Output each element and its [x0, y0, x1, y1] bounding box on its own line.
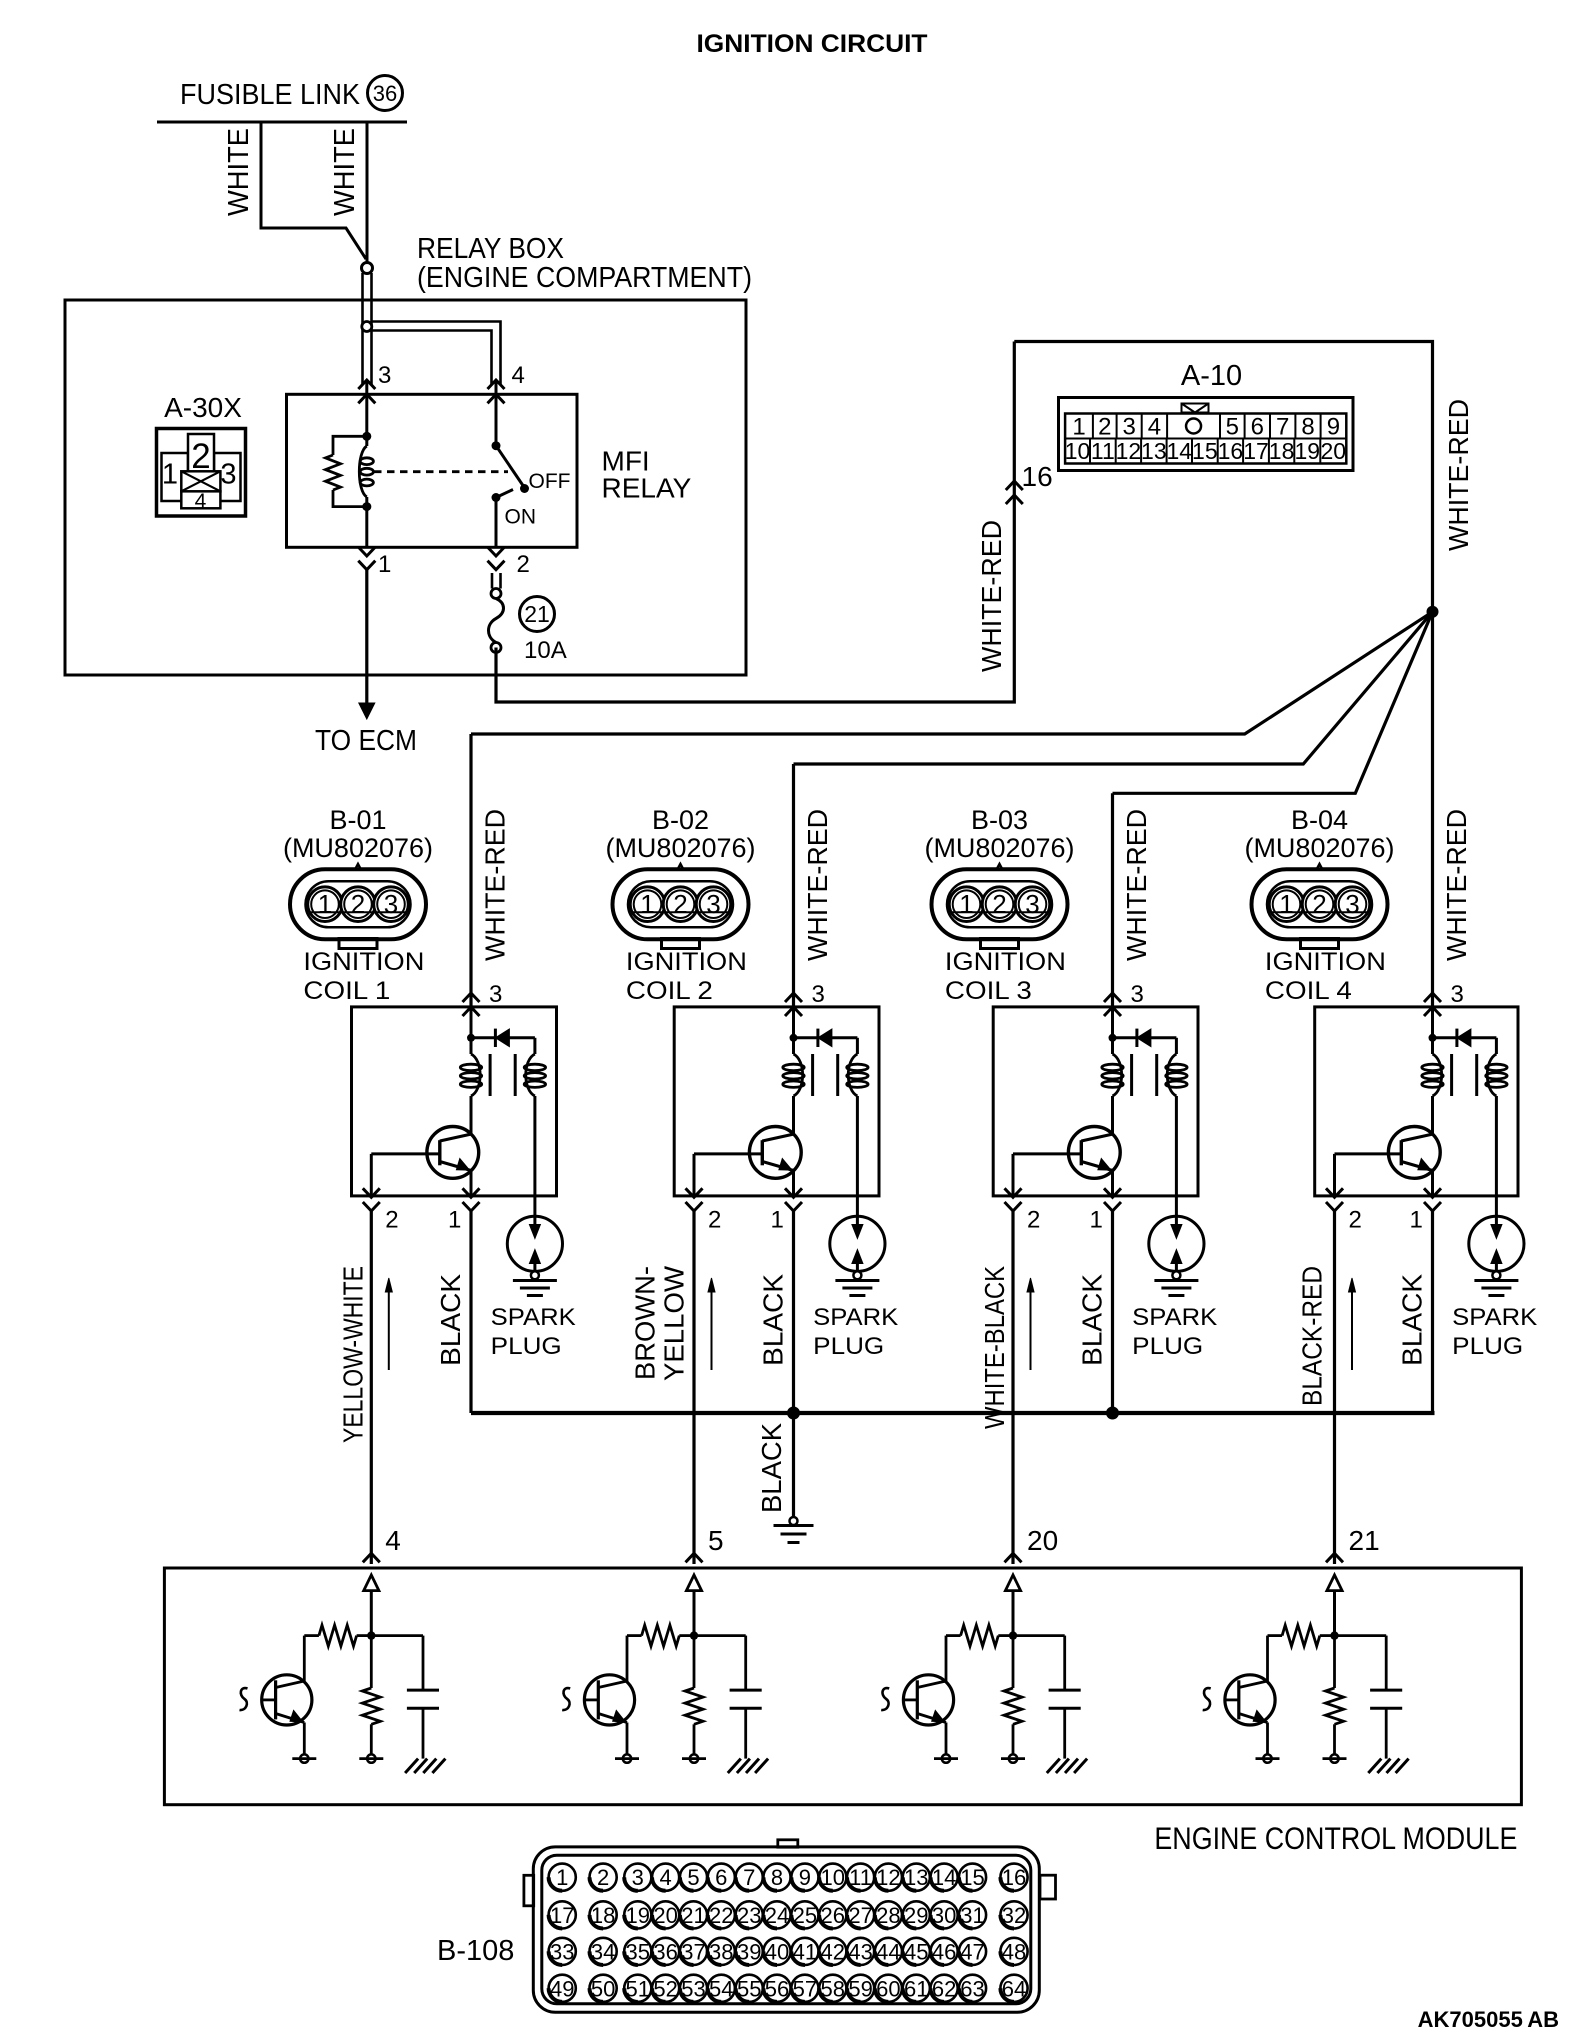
- coil 2 base wire: [694, 1152, 762, 1155]
- svg-text:B-03: B-03: [971, 805, 1028, 835]
- relay coil wire lower: [365, 497, 368, 547]
- ignition coil 3 box: [993, 1007, 1198, 1196]
- ECM driver 4 capacitor C4: [1335, 1634, 1387, 1637]
- svg-text:WHITE-RED: WHITE-RED: [1443, 399, 1474, 551]
- coil 4 secondary wire to spark plug: [1495, 1096, 1498, 1227]
- flow arrow coil 1: [388, 1284, 390, 1370]
- svg-text:22: 22: [709, 1903, 733, 1928]
- svg-text:20: 20: [1321, 438, 1347, 464]
- svg-text:2: 2: [673, 889, 687, 919]
- spark plug 3 ground: [1154, 1279, 1198, 1282]
- transistor Q2: [749, 1127, 801, 1179]
- svg-text:5: 5: [708, 1525, 724, 1556]
- ECM driver 4 emitter wire: [1266, 1723, 1269, 1755]
- connector A-30X cavity 4: [181, 491, 220, 508]
- coil 1 base wire: [371, 1152, 440, 1155]
- pin 4 arrow: [488, 380, 505, 389]
- coil 4 base wire drop: [1333, 1154, 1336, 1196]
- svg-text:14: 14: [932, 1865, 956, 1890]
- svg-text:TO ECM: TO ECM: [315, 725, 417, 757]
- svg-text:46: 46: [932, 1939, 956, 1964]
- coil 4 base wire: [1335, 1152, 1402, 1155]
- svg-text:3: 3: [378, 362, 391, 389]
- svg-text:4: 4: [195, 490, 207, 513]
- spark plug 4 ground terminal: [1492, 1271, 1500, 1279]
- svg-text:45: 45: [904, 1939, 928, 1964]
- connector B-01 pin 3: [374, 887, 409, 922]
- svg-text:4: 4: [512, 362, 525, 389]
- svg-text:56: 56: [765, 1976, 789, 2001]
- svg-text:AK705055 AB: AK705055 AB: [1418, 2007, 1559, 2032]
- svg-text:1: 1: [1279, 889, 1293, 919]
- svg-text:4: 4: [385, 1525, 401, 1556]
- coil 1 pin 2 arrow: [363, 1188, 380, 1197]
- wire WHITE left from fusible link: [261, 122, 366, 259]
- svg-text:6: 6: [1251, 414, 1264, 441]
- coil 3 pin 2 arrow: [1005, 1188, 1022, 1197]
- svg-text:11: 11: [849, 1865, 872, 1890]
- relay resistor branch bottom: [333, 490, 367, 507]
- spark plug 3: [1149, 1216, 1204, 1271]
- coil 2 secondary winding: [848, 1054, 857, 1096]
- svg-text:1: 1: [318, 889, 332, 919]
- relay switch pivot: [492, 441, 501, 450]
- svg-text:21: 21: [524, 601, 550, 627]
- ECM driver 2 transistor Q2e: [584, 1675, 634, 1725]
- svg-text:48: 48: [1002, 1939, 1026, 1964]
- ground symbol: [774, 1524, 814, 1527]
- wire coil 3 pin 1 to ground bus: [1111, 1211, 1114, 1413]
- svg-text:RELAY: RELAY: [602, 473, 692, 504]
- relay switch OFF contact: [520, 484, 529, 493]
- coil 3 primary to transistor wire: [1111, 1096, 1114, 1134]
- ECM driver 4 wire: [1333, 1591, 1336, 1636]
- svg-text:32: 32: [1002, 1903, 1026, 1928]
- ECM driver 1 resistor terminal: [367, 1754, 375, 1762]
- svg-text:A-10: A-10: [1181, 360, 1242, 392]
- coil 3 base wire: [1013, 1152, 1081, 1155]
- coil 1 emitter wire to pin 1: [470, 1169, 473, 1196]
- svg-text:52: 52: [653, 1976, 677, 2001]
- svg-text:14: 14: [1167, 438, 1193, 464]
- svg-text:B-02: B-02: [652, 805, 709, 835]
- svg-text:1: 1: [1090, 1207, 1103, 1234]
- svg-text:1: 1: [959, 889, 973, 919]
- ECM driver 3 resistor terminal: [1009, 1754, 1017, 1762]
- ground bus wire: [471, 1411, 1435, 1415]
- svg-text:(ENGINE COMPARTMENT): (ENGINE COMPARTMENT): [417, 262, 752, 294]
- ECM pin 4 arrow: [363, 1553, 380, 1562]
- svg-text:5: 5: [687, 1865, 699, 1890]
- coil 3 secondary wire to spark plug: [1175, 1096, 1178, 1227]
- ECM driver 2 input triangle: [686, 1575, 701, 1591]
- svg-text:57: 57: [793, 1976, 817, 2001]
- svg-text:BLACK: BLACK: [435, 1274, 466, 1366]
- svg-text:IGNITION: IGNITION: [1265, 948, 1386, 976]
- wire coil 4 pin 1 to ground bus: [1431, 1211, 1434, 1413]
- ECM driver 3 wire: [1012, 1591, 1015, 1636]
- svg-text:37: 37: [681, 1939, 705, 1964]
- svg-text:SPARK: SPARK: [1132, 1304, 1217, 1331]
- svg-text:10A: 10A: [524, 637, 567, 664]
- relay coil winding: [359, 446, 367, 497]
- coil 2 pin 3 arrow: [785, 993, 802, 1002]
- svg-text:27: 27: [848, 1903, 872, 1928]
- spark plug 1 ground: [513, 1279, 557, 1282]
- ECM driver 3 collector wire: [945, 1636, 948, 1681]
- svg-text:BLACK: BLACK: [1397, 1274, 1428, 1366]
- junction node white-red: [1427, 606, 1439, 618]
- ECM driver 2 pulldown resistor R2b: [693, 1636, 696, 1688]
- coil 2 base wire drop: [693, 1154, 696, 1196]
- connector B-02 tab: [662, 939, 700, 949]
- bare wire branch to pin 4: [372, 322, 501, 386]
- svg-text:(MU802076): (MU802076): [1244, 833, 1394, 863]
- coil 4 primary winding: [1433, 1054, 1442, 1096]
- coil 3 diode junction: [1109, 1034, 1117, 1042]
- ECM driver 4 resistor R4a: [1268, 1634, 1283, 1637]
- svg-text:60: 60: [876, 1976, 900, 2001]
- svg-text:8: 8: [1301, 414, 1314, 441]
- svg-text:20: 20: [653, 1903, 677, 1928]
- spark plug 1 ground terminal: [531, 1271, 539, 1279]
- ignition coil 2 box: [674, 1007, 879, 1196]
- ground terminal circle: [790, 1517, 798, 1525]
- wire junction to coil 2 feed: [794, 612, 1433, 764]
- svg-text:1: 1: [448, 1207, 461, 1234]
- svg-text:BLACK-RED: BLACK-RED: [1297, 1266, 1328, 1406]
- coil 2 pin 1 arrow: [785, 1188, 802, 1197]
- fuse top terminal: [491, 589, 501, 599]
- coil 4 internal wire from pin 3: [1431, 1007, 1434, 1054]
- pin 1 arrow: [358, 547, 375, 556]
- svg-text:16: 16: [1022, 461, 1053, 492]
- svg-text:YELLOW: YELLOW: [659, 1265, 690, 1381]
- connector B-108 right tab: [1040, 1875, 1056, 1899]
- connector B-04 pin 3: [1335, 887, 1370, 922]
- connector B-04 pin 1: [1269, 887, 1304, 922]
- svg-text:24: 24: [765, 1903, 789, 1928]
- wire coil 2 pin 1 to ground bus: [792, 1211, 795, 1413]
- relay coil bottom junction: [362, 502, 371, 511]
- ignition coil 4 box: [1315, 1007, 1518, 1196]
- svg-text:WHITE-RED: WHITE-RED: [802, 809, 833, 961]
- coil 1 diode D1: [471, 1036, 495, 1039]
- svg-text:50: 50: [591, 1976, 615, 2001]
- ECM driver 4 input triangle: [1327, 1575, 1342, 1591]
- svg-text:1: 1: [1410, 1207, 1423, 1234]
- wire coil 4 pin 2 to ECM: [1333, 1211, 1336, 1564]
- svg-text:1: 1: [556, 1865, 568, 1890]
- coil 3 diode D3: [1113, 1036, 1137, 1039]
- connector B-03 inner: [947, 881, 1052, 927]
- svg-text:2: 2: [1349, 1207, 1362, 1234]
- svg-text:42: 42: [821, 1939, 845, 1964]
- svg-text:COIL 1: COIL 1: [303, 977, 390, 1005]
- ignition coil 1 box: [352, 1007, 557, 1196]
- coil 3 core: [1130, 1054, 1133, 1096]
- coil 4 secondary winding: [1487, 1054, 1496, 1096]
- connector B-04 tab: [1301, 939, 1339, 949]
- terminal circle at relay box entry: [362, 263, 373, 274]
- coil 1 secondary wire to spark plug: [533, 1096, 536, 1227]
- connector B-108 top tab: [778, 1840, 798, 1847]
- bare wire double line below pin 2: [491, 573, 494, 589]
- svg-text:12: 12: [1116, 438, 1142, 464]
- coil 2 secondary wire to spark plug: [856, 1096, 859, 1227]
- ECM driver 4 junction: [1330, 1631, 1338, 1639]
- svg-text:15: 15: [1192, 438, 1218, 464]
- svg-text:PLUG: PLUG: [491, 1333, 562, 1360]
- svg-text:19: 19: [1295, 438, 1321, 464]
- bare wire double line to pin 3: [361, 273, 364, 385]
- svg-text:53: 53: [681, 1976, 705, 2001]
- coil 4 secondary winding top lead: [1495, 1038, 1498, 1054]
- relay switch wire to pin 2: [495, 498, 498, 548]
- connector B-03 pin 3: [1015, 887, 1050, 922]
- ECM driver 1 input triangle: [364, 1575, 379, 1591]
- svg-text:3: 3: [1451, 981, 1464, 1008]
- connector B-03 pin 1: [949, 887, 984, 922]
- wire junction to coil 1 feed: [471, 612, 1433, 734]
- ECM driver 3 emitter terminal: [942, 1754, 950, 1762]
- connector B-04 keying triangle: [1310, 864, 1329, 882]
- ECM driver 2 wire: [693, 1591, 696, 1636]
- svg-text:WHITE: WHITE: [223, 128, 255, 216]
- svg-text:SPARK: SPARK: [1452, 1304, 1537, 1331]
- ECM driver 3 input triangle: [1005, 1575, 1020, 1591]
- connector B-108 left tab: [524, 1875, 534, 1906]
- svg-text:63: 63: [960, 1976, 984, 2001]
- svg-text:49: 49: [550, 1976, 574, 2001]
- svg-text:35: 35: [626, 1939, 650, 1964]
- svg-text:21: 21: [681, 1903, 705, 1928]
- A-10 keying symbol: [1182, 404, 1209, 413]
- svg-text:4: 4: [659, 1865, 671, 1890]
- svg-text:9: 9: [799, 1865, 811, 1890]
- connector B-02 body: [613, 869, 749, 939]
- ECM driver 2 junction: [690, 1631, 698, 1639]
- svg-text:B-108: B-108: [437, 1935, 514, 1967]
- svg-text:PLUG: PLUG: [1452, 1333, 1523, 1360]
- transistor Q4: [1388, 1127, 1440, 1179]
- connector A-30X cavity 2: [188, 434, 214, 473]
- svg-text:18: 18: [1269, 438, 1295, 464]
- coil 2 internal wire from pin 3: [792, 1007, 795, 1054]
- coil 1 base wire drop: [370, 1154, 373, 1196]
- ECM driver 3 emitter wire: [945, 1723, 948, 1755]
- svg-text:2: 2: [708, 1207, 721, 1234]
- spark plug 4: [1469, 1216, 1524, 1271]
- svg-text:WHITE: WHITE: [329, 128, 361, 216]
- svg-text:COIL 4: COIL 4: [1265, 977, 1352, 1005]
- svg-text:2: 2: [191, 437, 210, 476]
- ground bus drop wire: [792, 1413, 795, 1517]
- svg-text:36: 36: [373, 81, 397, 106]
- svg-text:IGNITION CIRCUIT: IGNITION CIRCUIT: [697, 30, 928, 58]
- svg-text:23: 23: [737, 1903, 761, 1928]
- ECM driver 3 chassis ground: [1047, 1759, 1060, 1773]
- svg-text:8: 8: [771, 1865, 783, 1890]
- svg-text:WHITE-RED: WHITE-RED: [1121, 809, 1152, 961]
- ECM driver 4 resistor terminal: [1330, 1754, 1338, 1762]
- svg-text:RELAY BOX: RELAY BOX: [417, 233, 564, 265]
- wire coil 1 pin 2 to ECM: [370, 1211, 373, 1564]
- coil 2 primary to transistor wire: [792, 1096, 795, 1134]
- svg-text:16: 16: [1218, 438, 1244, 464]
- ECM pin 20 arrow: [1005, 1553, 1022, 1562]
- ECM driver 1 collector wire: [303, 1636, 306, 1681]
- wire junction to coil 3 feed: [1113, 612, 1433, 794]
- connector B-03 keying triangle: [990, 864, 1009, 882]
- ECM driver 1 transistor Q1e: [262, 1675, 312, 1725]
- coil 3 primary winding: [1113, 1054, 1122, 1096]
- svg-text:1: 1: [771, 1207, 784, 1234]
- ECM driver 3 resistor R3a: [946, 1634, 961, 1637]
- ECM driver 2 resistor terminal: [690, 1754, 698, 1762]
- connector A-30X keying box: [181, 471, 220, 491]
- svg-text:(MU802076): (MU802076): [283, 833, 433, 863]
- ECM pin 21 arrow: [1326, 1553, 1343, 1562]
- svg-text:PLUG: PLUG: [1132, 1333, 1203, 1360]
- coil 1 pin 1 arrow: [463, 1188, 480, 1197]
- relay switch ON contact: [492, 493, 501, 502]
- A-10 connector body: [1059, 398, 1354, 471]
- coil 2 diode D2: [794, 1036, 818, 1039]
- svg-text:64: 64: [1002, 1976, 1026, 2001]
- TO ECM arrowhead: [359, 703, 375, 719]
- svg-text:2: 2: [1027, 1207, 1040, 1234]
- spark plug 1: [507, 1216, 562, 1271]
- ECM driver 2 capacitor C2: [694, 1634, 746, 1637]
- svg-text:2: 2: [992, 889, 1006, 919]
- spark plug 2 ground: [835, 1279, 879, 1282]
- svg-text:2: 2: [351, 889, 365, 919]
- relay switch wire from pin 4: [495, 380, 498, 446]
- ground bus junction coil 3: [1106, 1407, 1119, 1420]
- coil 2 core: [811, 1054, 814, 1096]
- coil 3 internal wire from pin 3: [1111, 1007, 1114, 1054]
- svg-text:59: 59: [848, 1976, 872, 2001]
- svg-text:(MU802076): (MU802076): [605, 833, 755, 863]
- svg-text:7: 7: [1276, 414, 1289, 441]
- A-10 pin 16 arrow: [1006, 481, 1023, 490]
- svg-text:COIL 2: COIL 2: [626, 977, 713, 1005]
- ECM driver 3 capacitor C3: [1013, 1634, 1065, 1637]
- junction circle on bare wire: [362, 322, 372, 332]
- relay coil top junction: [362, 432, 371, 441]
- coil 4 diode D4: [1433, 1036, 1457, 1039]
- wire WHITE-RED vertical coil 4: [1431, 612, 1434, 1007]
- pin 2 arrow: [488, 547, 505, 556]
- ECM driver 4 transistor Q4e: [1225, 1675, 1275, 1725]
- fuse bottom terminal: [491, 643, 501, 653]
- svg-text:39: 39: [737, 1939, 761, 1964]
- ECM driver 2 collector wire: [626, 1636, 629, 1681]
- svg-text:51: 51: [626, 1976, 650, 2001]
- svg-text:5: 5: [1226, 414, 1239, 441]
- svg-text:2: 2: [597, 1865, 609, 1890]
- svg-text:3: 3: [1345, 889, 1359, 919]
- svg-text:1: 1: [378, 551, 391, 578]
- coil 4 pin 3 arrow: [1424, 993, 1441, 1002]
- ECM driver 1 capacitor C1: [371, 1634, 423, 1637]
- coil 2 primary winding: [794, 1054, 803, 1096]
- ECM driver 2 chassis ground: [728, 1759, 741, 1773]
- svg-text:B-04: B-04: [1291, 805, 1348, 835]
- ECM driver 1 emitter terminal: [300, 1754, 308, 1762]
- coil 1 diode junction: [467, 1034, 475, 1042]
- transistor Q3: [1068, 1127, 1120, 1179]
- coil 1 primary winding: [471, 1054, 480, 1096]
- svg-text:COIL 3: COIL 3: [945, 977, 1032, 1005]
- connector B-03 body: [932, 869, 1068, 939]
- coil 3 pin 3 arrow: [1104, 993, 1121, 1002]
- svg-text:16: 16: [1002, 1865, 1026, 1890]
- svg-text:61: 61: [904, 1976, 928, 2001]
- flow arrow coil 4: [1351, 1284, 1353, 1370]
- svg-text:55: 55: [737, 1976, 761, 2001]
- svg-text:3: 3: [812, 981, 825, 1008]
- svg-text:34: 34: [591, 1939, 615, 1964]
- connector B-108 inner: [542, 1855, 1031, 2004]
- connector A-30X cavity 3: [214, 453, 241, 501]
- coil 3 pin 1 arrow: [1104, 1188, 1121, 1197]
- svg-text:2: 2: [1312, 889, 1326, 919]
- svg-text:IGNITION: IGNITION: [303, 948, 424, 976]
- wire coil 2 pin 2 to ECM: [692, 1211, 695, 1564]
- coil 1 secondary winding top lead: [533, 1038, 536, 1054]
- svg-text:20: 20: [1027, 1525, 1058, 1556]
- connector B-02 pin 3: [696, 887, 731, 922]
- ECM driver 1 emitter wire: [303, 1723, 306, 1755]
- spark plug 3 ground terminal: [1172, 1271, 1180, 1279]
- svg-text:IGNITION: IGNITION: [945, 948, 1066, 976]
- svg-text:31: 31: [960, 1903, 984, 1928]
- coil 1 pin 3 arrow: [463, 993, 480, 1002]
- wire coil 3 pin 2 to ECM: [1011, 1211, 1014, 1564]
- svg-text:7: 7: [743, 1865, 755, 1890]
- fusible link circle 36: [368, 76, 403, 111]
- ECM driver 3 junction: [1009, 1631, 1017, 1639]
- connector B-02 keying triangle: [671, 864, 690, 882]
- fusible link bus bar: [157, 121, 407, 124]
- ECM driver 1 chassis ground: [405, 1759, 418, 1773]
- A-10 pin grid: [1065, 414, 1346, 464]
- relay resistor branch top: [333, 436, 367, 455]
- svg-text:BLACK: BLACK: [756, 1423, 787, 1513]
- spark plug 2: [830, 1216, 885, 1271]
- svg-text:3: 3: [1122, 414, 1135, 441]
- ECM driver 1 pulldown resistor R1b: [370, 1636, 373, 1688]
- pin 3 arrow: [358, 380, 375, 389]
- coil 2 secondary winding top lead: [856, 1038, 859, 1054]
- coil 4 emitter wire to pin 1: [1431, 1169, 1434, 1196]
- svg-text:11: 11: [1091, 438, 1115, 464]
- wire WHITE-RED vertical coil 1: [469, 734, 472, 1007]
- svg-text:WHITE-RED: WHITE-RED: [976, 520, 1007, 672]
- svg-text:FUSIBLE LINK: FUSIBLE LINK: [180, 79, 361, 111]
- wire WHITE-RED vertical coil 2: [792, 764, 795, 1007]
- coil 4 core: [1450, 1054, 1453, 1096]
- svg-text:54: 54: [709, 1976, 733, 2001]
- svg-text:29: 29: [904, 1903, 928, 1928]
- connector B-01 tab: [339, 939, 377, 949]
- relay resistor R: [326, 455, 341, 490]
- svg-text:10: 10: [1065, 438, 1091, 464]
- coil 2 pin 2 arrow: [686, 1188, 703, 1197]
- svg-text:3: 3: [384, 889, 398, 919]
